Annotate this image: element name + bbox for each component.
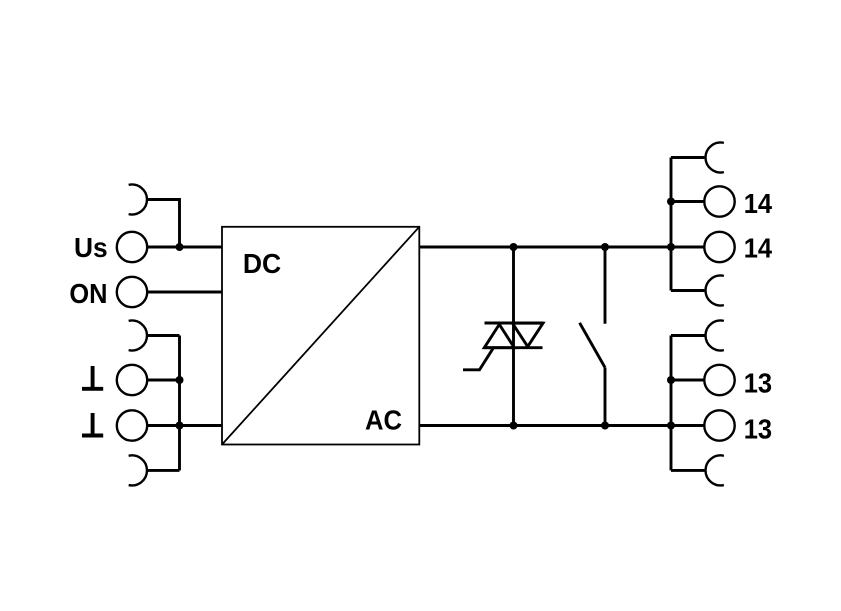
triac V1 bottom bar [484,346,543,349]
wire bus to hook 13 top [671,334,706,337]
bridge hook 13 bottom [706,455,724,485]
bridge hook 13 top [706,320,724,350]
svg-text:14: 14 [744,233,773,264]
switch contact blade [580,323,605,368]
switch contact lower lead [604,368,607,426]
junction dot Us node [176,243,184,251]
svg-text:Us: Us [74,232,108,263]
ground symbol upper [82,366,103,389]
terminal circle ground upper [117,365,147,395]
junction dot ground upper [176,376,184,384]
wire converter AC output top [419,246,671,249]
junction dot 14 lower [667,243,675,251]
switch contact upper lead [604,247,607,324]
junction dot triac top [510,243,518,251]
junction dot 13 lower [667,422,675,430]
wire hook left-bottom to ground bus [147,469,180,472]
svg-text:DC: DC [243,248,281,279]
wire Us terminal to converter input [147,246,222,249]
triac V1 left triangle [484,324,514,347]
triac V1 gate lead [463,348,494,370]
bridge hook 14 top [706,142,724,172]
wire ground lower terminal to converter input [147,424,222,427]
wire bus to terminal 14 lower [671,246,704,249]
bridge hook left-mid [129,320,147,350]
ground symbol lower [82,413,103,436]
junction dot ground lower [176,422,184,430]
wire ground upper terminal to bus [147,379,179,382]
terminal circle ground lower [117,410,147,440]
bridge hook top-left [129,185,147,215]
wire right bus 13 group [670,336,673,471]
junction dot switch bottom [601,422,609,430]
junction dot triac bottom [510,422,518,430]
wire bus to hook 13 bottom [671,469,706,472]
wire bus to hook 14 bottom [671,289,706,292]
terminal circle 14 lower [704,232,734,262]
svg-text:13: 13 [744,368,772,399]
junction dot 14 upper [667,198,675,206]
wire hook to Us node [147,200,180,248]
converter U1 diagonal [222,227,419,445]
terminal circle Us [117,232,147,262]
wire bus to terminal 14 upper [671,200,704,203]
terminal circle 13 lower [704,410,734,440]
terminal circle 13 upper [704,365,734,395]
triac V1 top bar [485,322,544,325]
svg-text:AC: AC [365,405,402,436]
wire left ground bus [178,336,181,471]
wire ON terminal to converter input [147,291,222,294]
triac V1 right triangle [512,323,543,346]
wire right bus 14 group [670,158,673,291]
junction dot switch top [601,243,609,251]
wire hook left-mid to ground bus [147,334,180,337]
svg-text:ON: ON [69,278,107,309]
terminal circle 14 upper [704,186,734,216]
svg-text:13: 13 [744,413,772,444]
wire triac branch [512,247,515,426]
terminal circle ON [117,277,147,307]
svg-text:14: 14 [744,188,773,219]
wire bus to terminal 13 lower [671,424,704,427]
converter U1 box [222,227,419,445]
wire bus to terminal 13 upper [671,379,704,382]
bridge hook left-bottom [129,455,147,485]
wire bus to hook 14 top [671,156,706,159]
bridge hook 14 bottom [706,275,724,305]
junction dot 13 upper [667,376,675,384]
wire converter AC output bottom [419,424,671,427]
